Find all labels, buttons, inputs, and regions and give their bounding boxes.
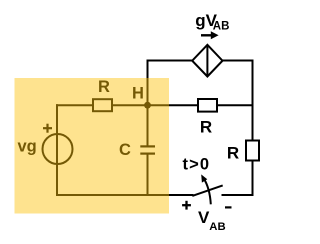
node H junction dot [144, 102, 151, 109]
svg-text:V: V [198, 208, 210, 227]
switch plus terminal label [182, 201, 191, 210]
yellow highlight region overlay [15, 78, 170, 214]
voltage source vg circle [43, 134, 73, 164]
resistor R2 (middle) [198, 99, 217, 112]
svg-text:R: R [227, 144, 239, 163]
vg polarity plus [43, 124, 52, 133]
wire: capacitor bottom lead [147, 154, 149, 196]
svg-text:R: R [200, 118, 212, 137]
wire: node H up and over to dependent source [148, 61, 193, 106]
wire: bottom horizontal [56, 194, 194, 196]
wire: top-left horizontal (vg to R1) [56, 104, 93, 106]
switch minus terminal label [225, 206, 232, 208]
svg-text:AB: AB [209, 221, 225, 233]
wire: R2 to right vertical [217, 104, 254, 106]
switch actuation arrow [204, 178, 211, 204]
svg-text:AB: AB [213, 21, 230, 33]
capacitor C plates [140, 146, 155, 153]
dependent source internal line [206, 45, 208, 77]
wire: R1 to node H to R2 [112, 104, 198, 106]
dependent source U1 diamond [192, 45, 222, 77]
wire: capacitor top lead [147, 105, 149, 146]
switch SW blade [192, 185, 222, 196]
wire: R3 down to switch right contact [222, 161, 253, 196]
resistor R1 (left, in highlight) [93, 99, 112, 111]
svg-text:t>0: t>0 [183, 156, 211, 174]
wire: vg branch left vertical [56, 104, 58, 196]
resistor R3 (right vertical) [246, 141, 259, 161]
current direction arrow for gVAB [201, 31, 219, 39]
wire: dependent source right to corner down to R3 [223, 61, 253, 141]
